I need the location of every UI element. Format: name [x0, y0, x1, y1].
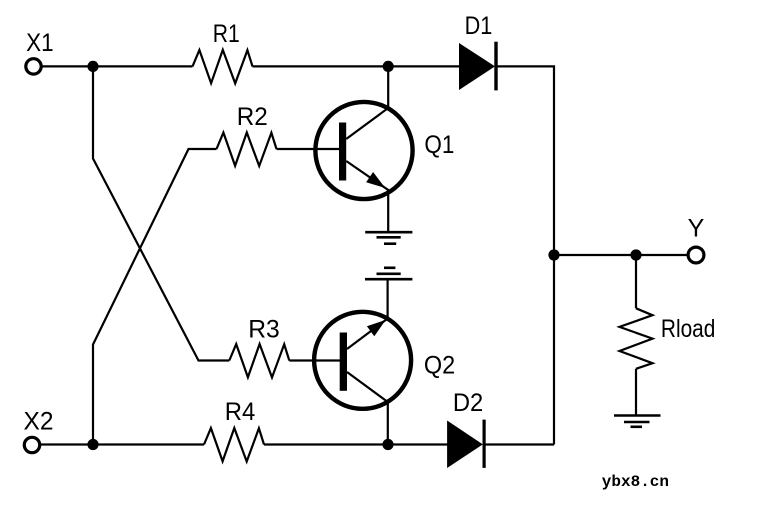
- ground below Q1 emitter: [365, 232, 412, 244]
- node dot R1-D1 junction: [383, 61, 394, 72]
- wire top rail X1 to R1: [42, 65, 193, 67]
- node dot X1 junction: [87, 61, 98, 72]
- inverted ground above Q2: [365, 268, 412, 279]
- svg-text:Q1: Q1: [424, 131, 454, 159]
- wire R3 to Q2 base: [289, 359, 340, 361]
- diode D2: [447, 420, 486, 468]
- svg-text:R3: R3: [248, 316, 280, 344]
- terminal Y: [688, 247, 704, 263]
- wire R4 to D2: [264, 443, 448, 445]
- svg-text:Q2: Q2: [424, 352, 455, 380]
- diode D1: [459, 42, 498, 91]
- svg-text:Y: Y: [688, 215, 705, 243]
- wire cross line from X2 node to R2: [93, 149, 217, 445]
- transistor Q2: [314, 279, 411, 444]
- terminal X2: [24, 437, 39, 452]
- svg-text:D1: D1: [465, 12, 493, 40]
- svg-text:D2: D2: [453, 389, 483, 417]
- node dot X2 junction: [87, 439, 98, 450]
- ground below Rload: [614, 416, 661, 427]
- resistor R1: [193, 50, 253, 84]
- svg-text:R1: R1: [213, 20, 240, 48]
- resistor Rload: [620, 308, 653, 369]
- resistor R4: [204, 428, 264, 462]
- svg-text:ybx8.cn: ybx8.cn: [602, 473, 669, 491]
- svg-text:X2: X2: [24, 408, 54, 436]
- resistor R2: [217, 133, 277, 167]
- terminal X1: [26, 59, 41, 74]
- wire R2 to Q1 base: [277, 148, 340, 150]
- node dot Q2-D2 junction: [382, 439, 393, 450]
- svg-text:R2: R2: [237, 103, 268, 131]
- wire output node to Rload: [635, 255, 637, 308]
- node dot right rail output: [548, 249, 559, 260]
- wire D2 to bottom-right corner: [484, 443, 554, 445]
- svg-text:R4: R4: [225, 398, 256, 426]
- node dot Rload tap: [630, 249, 641, 260]
- svg-text:X1: X1: [26, 29, 53, 57]
- wire R1 to D1: [253, 65, 460, 67]
- wire bottom rail X2 to R4: [40, 443, 204, 445]
- wire D1 to top-right corner and right rail down: [496, 66, 554, 444]
- wire output node to Y terminal: [554, 254, 688, 256]
- wire cross line from X1 node to R3: [93, 66, 229, 360]
- wire Rload to ground: [635, 369, 637, 416]
- resistor R3: [229, 344, 289, 378]
- transistor Q1: [315, 66, 412, 233]
- svg-text:Rload: Rload: [661, 315, 716, 343]
